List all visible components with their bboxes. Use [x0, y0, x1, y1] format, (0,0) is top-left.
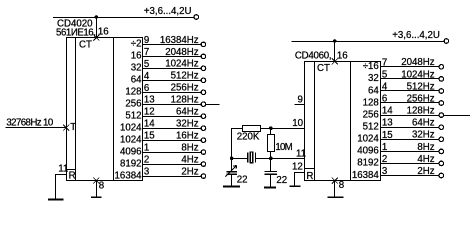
wire left node down [231, 128, 233, 158]
svg-text:128Hz: 128Hz [407, 106, 435, 117]
wire U2 output pin 3 [380, 175, 439, 177]
svg-text:128Hz: 128Hz [171, 95, 199, 106]
svg-text:7: 7 [382, 57, 387, 68]
wire 220K left lead [232, 128, 243, 130]
terminal 2048Hz left [201, 54, 206, 59]
terminal +3,6...4,2U left [194, 15, 199, 20]
svg-text:6: 6 [144, 83, 149, 94]
terminal 4Hz left [201, 162, 206, 167]
svg-text:13: 13 [144, 95, 155, 106]
svg-text:220K: 220K [237, 131, 260, 142]
svg-text:1024: 1024 [120, 135, 142, 146]
wire U1 output pin 3 [143, 176, 202, 178]
terminal 1024Hz left [201, 66, 206, 71]
U2 left column divider [314, 61, 316, 180]
terminal 16Hz left [201, 138, 206, 143]
terminal 128Hz left [201, 102, 206, 107]
svg-text:8: 8 [99, 180, 104, 191]
svg-text:16384: 16384 [115, 170, 143, 181]
svg-text:14: 14 [144, 119, 155, 130]
svg-text:8Hz: 8Hz [181, 143, 198, 154]
terminal 32Hz right [439, 137, 444, 142]
wire crystal left lead [232, 158, 247, 160]
svg-text:5: 5 [144, 59, 149, 70]
wire U2 output pin 1 [380, 151, 439, 153]
svg-text:1024Hz: 1024Hz [165, 59, 199, 70]
pin 8 U2 connection cross [332, 178, 338, 184]
svg-text:2: 2 [144, 155, 149, 166]
svg-text:22: 22 [276, 175, 287, 186]
svg-text:12: 12 [144, 107, 155, 118]
svg-text:11: 11 [58, 164, 68, 175]
svg-text:1024: 1024 [120, 123, 142, 134]
svg-text:R: R [306, 171, 313, 182]
svg-text:16: 16 [337, 51, 348, 62]
junction crystal right node [269, 157, 273, 161]
pin 16 U2 connection cross [332, 58, 338, 64]
terminal 1024Hz right [439, 77, 444, 82]
terminal 512Hz left [201, 78, 206, 83]
wire C1 bottom lead [231, 175, 233, 186]
terminal 16384Hz left [201, 42, 206, 47]
svg-text:16: 16 [98, 27, 109, 38]
crystal ZQ1 body slit [251, 153, 252, 163]
wire U1 output pin 5 [143, 68, 202, 70]
ground U2 pin12 [290, 185, 301, 187]
svg-text:4096: 4096 [357, 146, 379, 157]
svg-text:32: 32 [368, 73, 379, 84]
svg-text:1024: 1024 [357, 134, 379, 145]
svg-text:128: 128 [363, 97, 379, 108]
svg-text:22: 22 [237, 174, 248, 185]
svg-text:16: 16 [131, 51, 142, 62]
wire C2 top lead [270, 158, 272, 171]
terminal 256Hz right [439, 101, 444, 106]
svg-text:2Hz: 2Hz [181, 167, 198, 178]
wire R2 top lead [270, 128, 272, 135]
wire U1 output pin 15 [143, 140, 202, 142]
wire 220K right lead to U2 pin10 [260, 128, 305, 130]
wire +V rail right [292, 41, 445, 43]
svg-text:5: 5 [382, 69, 387, 80]
svg-text:2048Hz: 2048Hz [401, 57, 435, 68]
wire R2 bottom lead [270, 151, 272, 158]
wire 128Hz right output continuation [444, 115, 470, 117]
terminal 64Hz left [201, 114, 206, 119]
svg-text:12: 12 [292, 162, 303, 173]
svg-text:512Hz: 512Hz [171, 71, 199, 82]
svg-text:2048Hz: 2048Hz [165, 47, 199, 58]
svg-text:64Hz: 64Hz [412, 118, 435, 129]
svg-text:16Hz: 16Hz [176, 131, 199, 142]
svg-text:÷16: ÷16 [363, 61, 379, 72]
wire U1 pin8 down [96, 181, 98, 197]
terminal 2Hz left [201, 174, 206, 179]
wire U2 output pin 15 [380, 139, 439, 141]
wire U1 output pin 14 [143, 128, 202, 130]
wire U2 pin8 down [334, 181, 336, 197]
terminal 4Hz right [439, 161, 444, 166]
svg-text:3: 3 [382, 166, 387, 177]
svg-text:128: 128 [125, 87, 141, 98]
svg-text:512Hz: 512Hz [407, 81, 435, 92]
svg-text:8: 8 [339, 180, 344, 191]
svg-text:64: 64 [131, 75, 142, 86]
crystal ZQ1 left electrode [247, 152, 248, 162]
svg-text:1: 1 [382, 142, 387, 153]
terminal 32Hz left [201, 126, 206, 131]
crystal ZQ1 right electrode [255, 152, 256, 162]
wire U1 output pin 2 [143, 164, 202, 166]
junction R1-R2-pin10 node [269, 126, 273, 130]
wire U2 pin12 down [294, 172, 296, 186]
svg-text:8192: 8192 [120, 158, 142, 169]
svg-text:13: 13 [382, 118, 393, 129]
svg-text:9: 9 [144, 35, 149, 46]
junction on right rail [333, 39, 337, 43]
wire U1 pin16 to rail [96, 17, 98, 38]
wire U1 output pin 4 [143, 80, 202, 82]
svg-text:2: 2 [382, 154, 387, 165]
svg-text:8192: 8192 [357, 158, 379, 169]
wire U2 output pin 4 [380, 90, 439, 92]
wire U2 output pin 13 [380, 127, 439, 129]
wire crystal right lead [256, 158, 271, 160]
svg-text:10: 10 [292, 118, 303, 129]
terminal 512Hz right [439, 89, 444, 94]
wire U1 output pin 13 [143, 104, 202, 106]
svg-text:4Hz: 4Hz [417, 154, 434, 165]
wire U1 output pin 7 [143, 56, 202, 58]
capacitor C1 bottom plate [226, 173, 236, 175]
svg-text:2Hz: 2Hz [417, 166, 434, 177]
svg-text:+3,6...4,2U: +3,6...4,2U [144, 6, 192, 17]
svg-text:CD4060,: CD4060, [295, 51, 332, 62]
svg-text:561ИЕ16,: 561ИЕ16, [56, 27, 95, 38]
svg-text:32768Hz 10: 32768Hz 10 [6, 117, 53, 128]
svg-text:4Hz: 4Hz [181, 155, 198, 166]
svg-text:7: 7 [144, 47, 149, 58]
pin 16 U1 connection cross [93, 35, 99, 41]
svg-text:+3,6...4,2U: +3,6...4,2U [392, 30, 440, 41]
capacitor C1 top plate [226, 171, 236, 173]
capacitor C1 trimmer arrow [225, 165, 236, 176]
resistor R1 220K body [243, 126, 261, 132]
crystal ZQ1 body [250, 151, 254, 163]
svg-text:8Hz: 8Hz [417, 142, 434, 153]
svg-text:R: R [69, 171, 76, 182]
terminal 8Hz right [439, 149, 444, 154]
svg-text:15: 15 [144, 131, 155, 142]
U1 R box divider [66, 169, 76, 171]
svg-text:14: 14 [382, 106, 393, 117]
terminal 8Hz left [201, 150, 206, 155]
pin 10 U1 connection cross [63, 125, 69, 131]
wire U1 output pin 9 [143, 44, 202, 46]
wire C1 top lead [231, 158, 233, 171]
svg-text:4: 4 [382, 82, 388, 93]
svg-text:1024Hz: 1024Hz [401, 69, 435, 80]
wire U1 pin11 [56, 174, 67, 176]
ground U1 pin8 [91, 196, 102, 198]
svg-text:256Hz: 256Hz [171, 83, 199, 94]
svg-text:4: 4 [144, 71, 150, 82]
wire C2 bottom lead [270, 175, 272, 187]
svg-text:32: 32 [131, 63, 142, 74]
svg-text:16384Hz: 16384Hz [160, 35, 199, 46]
wire 32768Hz input to U1 pin 10 [5, 127, 66, 129]
svg-text:32Hz: 32Hz [176, 119, 199, 130]
svg-text:4096: 4096 [120, 146, 142, 157]
U1 left column divider [75, 38, 77, 181]
wire U2 pin9 stub [294, 104, 305, 106]
wire U2 pin12 [295, 172, 305, 174]
svg-text:CT: CT [79, 40, 92, 51]
svg-text:64: 64 [368, 85, 379, 96]
ground C1 [223, 185, 240, 187]
terminal 2048Hz right [439, 65, 444, 70]
svg-text:6: 6 [382, 94, 387, 105]
svg-text:16384: 16384 [352, 170, 380, 181]
wire U1 output pin 1 [143, 152, 202, 154]
U2 R box divider [305, 168, 315, 170]
wire U2 output pin 5 [380, 78, 439, 80]
svg-text:512: 512 [363, 122, 379, 133]
U1 output column divider [113, 38, 115, 181]
wire U1 output pin 6 [143, 92, 202, 94]
wire U1 output pin 12 [143, 116, 202, 118]
terminal 2Hz right [439, 173, 444, 178]
svg-text:10M: 10M [275, 142, 292, 153]
svg-text:CT: CT [317, 63, 330, 74]
wire U2 output pin 7 [380, 66, 439, 68]
svg-text:256: 256 [363, 109, 379, 120]
svg-text:15: 15 [382, 130, 393, 141]
terminal 128Hz right [439, 113, 444, 118]
IC U1 CD4020 body [67, 38, 143, 181]
capacitor C2 bottom plate [265, 173, 277, 175]
wire U1 pin11 down [55, 174, 57, 199]
wire U2 output pin 2 [380, 163, 439, 165]
resistor R2 10M body [268, 135, 275, 152]
svg-text:256Hz: 256Hz [407, 93, 435, 104]
svg-text:512: 512 [125, 111, 141, 122]
wire +V rail left [53, 17, 194, 19]
terminal 64Hz right [439, 125, 444, 130]
terminal +3,6...4,2U right [444, 39, 449, 44]
svg-text:÷2: ÷2 [131, 39, 142, 50]
svg-text:T: T [70, 122, 76, 133]
svg-text:256: 256 [125, 99, 141, 110]
pin 8 U1 connection cross [93, 178, 99, 184]
wire U2 pin16 to rail [334, 41, 336, 61]
terminal 256Hz left [201, 90, 206, 95]
svg-text:32Hz: 32Hz [412, 130, 435, 141]
U2 output column divider [350, 61, 352, 180]
ground U2 pin8 [328, 196, 344, 198]
wire 128Hz left output continuation [206, 104, 220, 106]
wire crystal node to U2 pin11 [271, 158, 305, 160]
svg-text:3: 3 [144, 167, 149, 178]
svg-text:1: 1 [144, 143, 149, 154]
wire U2 output pin 6 [380, 102, 439, 104]
junction on left rail [95, 15, 99, 19]
junction crystal left node [230, 157, 234, 161]
ground C2 [264, 187, 276, 189]
IC U2 CD4060 body [305, 62, 381, 181]
svg-text:64Hz: 64Hz [176, 107, 199, 118]
ground U1 pin11 [48, 199, 64, 201]
capacitor C2 top plate [265, 171, 277, 173]
wire U2 output pin 14 [380, 115, 439, 117]
